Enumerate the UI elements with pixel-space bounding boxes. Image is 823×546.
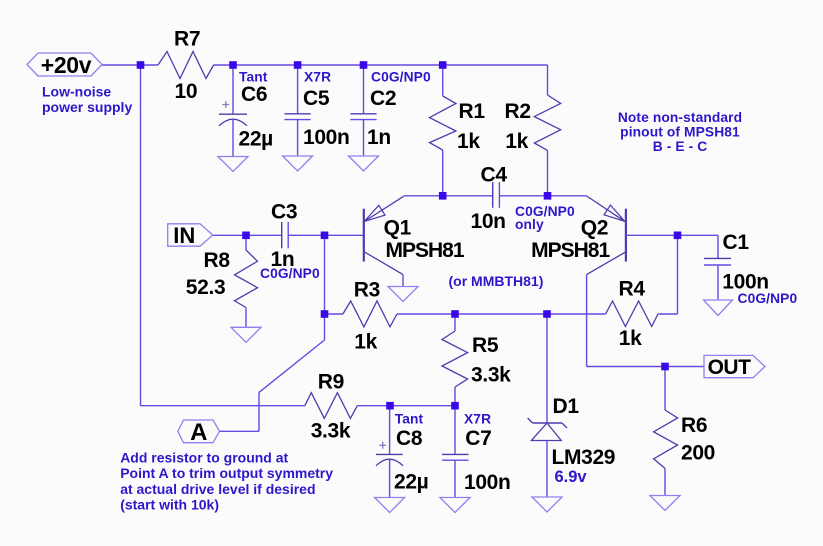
svg-text:Low-noise: Low-noise [42, 84, 111, 100]
svg-text:1k: 1k [505, 130, 528, 153]
svg-text:R6: R6 [681, 414, 707, 437]
svg-text:at actual drive level if desir: at actual drive level if desired [120, 481, 315, 497]
svg-text:1n: 1n [367, 126, 391, 149]
svg-text:D1: D1 [553, 395, 580, 418]
svg-text:C1: C1 [723, 231, 750, 254]
svg-text:+20v: +20v [41, 52, 92, 78]
svg-text:52.3: 52.3 [186, 276, 225, 299]
svg-text:C0G/NP0: C0G/NP0 [371, 69, 431, 84]
svg-text:R9: R9 [318, 371, 344, 394]
svg-text:C8: C8 [396, 427, 423, 450]
svg-text:X7R: X7R [464, 412, 491, 427]
svg-text:Tant: Tant [395, 412, 424, 427]
svg-text:C6: C6 [241, 83, 267, 106]
svg-text:only: only [515, 217, 544, 232]
svg-text:B - E - C: B - E - C [653, 139, 708, 154]
svg-text:100n: 100n [464, 471, 510, 494]
svg-text:C2: C2 [370, 87, 396, 110]
svg-text:R1: R1 [459, 100, 486, 123]
svg-text:6.9v: 6.9v [555, 468, 588, 486]
svg-text:C4: C4 [481, 163, 508, 186]
svg-text:Note non-standard: Note non-standard [618, 110, 742, 125]
svg-text:LM329: LM329 [552, 446, 616, 469]
svg-text:3.3k: 3.3k [311, 419, 351, 442]
svg-text:R5: R5 [472, 334, 499, 357]
svg-text:Point A to trim output symmetr: Point A to trim output symmetry [120, 465, 333, 481]
svg-text:(or MMBTH81): (or MMBTH81) [449, 273, 544, 289]
svg-text:R3: R3 [354, 278, 380, 301]
svg-text:10n: 10n [471, 210, 506, 233]
svg-text:R7: R7 [174, 28, 200, 51]
svg-text:22µ: 22µ [394, 471, 428, 494]
svg-text:power supply: power supply [42, 99, 132, 115]
svg-text:R2: R2 [505, 100, 531, 123]
svg-text:C0G/NP0: C0G/NP0 [260, 266, 320, 281]
svg-text:X7R: X7R [304, 69, 331, 84]
svg-text:Q2: Q2 [581, 216, 608, 239]
svg-text:1k: 1k [457, 130, 480, 153]
svg-text:3.3k: 3.3k [471, 363, 511, 386]
svg-text:IN: IN [173, 223, 195, 248]
svg-text:R4: R4 [619, 278, 646, 301]
svg-text:200: 200 [681, 442, 715, 465]
svg-text:Q1: Q1 [384, 216, 412, 239]
svg-text:1k: 1k [354, 330, 377, 353]
svg-text:(start with 10k): (start with 10k) [120, 496, 219, 512]
svg-text:22µ: 22µ [239, 128, 273, 151]
svg-text:100n: 100n [303, 126, 349, 149]
svg-text:Add resistor to ground at: Add resistor to ground at [120, 450, 288, 466]
svg-text:MPSH81: MPSH81 [386, 239, 465, 262]
svg-text:C7: C7 [465, 427, 491, 450]
svg-text:pinout of MPSH81: pinout of MPSH81 [620, 125, 740, 140]
svg-text:C3: C3 [271, 201, 297, 224]
svg-text:A: A [190, 419, 207, 446]
svg-text:MPSH81: MPSH81 [531, 239, 610, 262]
svg-text:10: 10 [175, 80, 198, 103]
svg-text:OUT: OUT [708, 356, 752, 379]
svg-text:Tant: Tant [239, 69, 268, 84]
svg-text:C5: C5 [303, 87, 330, 110]
svg-text:R8: R8 [204, 249, 231, 272]
svg-text:1k: 1k [619, 327, 642, 350]
svg-text:C0G/NP0: C0G/NP0 [738, 291, 798, 306]
